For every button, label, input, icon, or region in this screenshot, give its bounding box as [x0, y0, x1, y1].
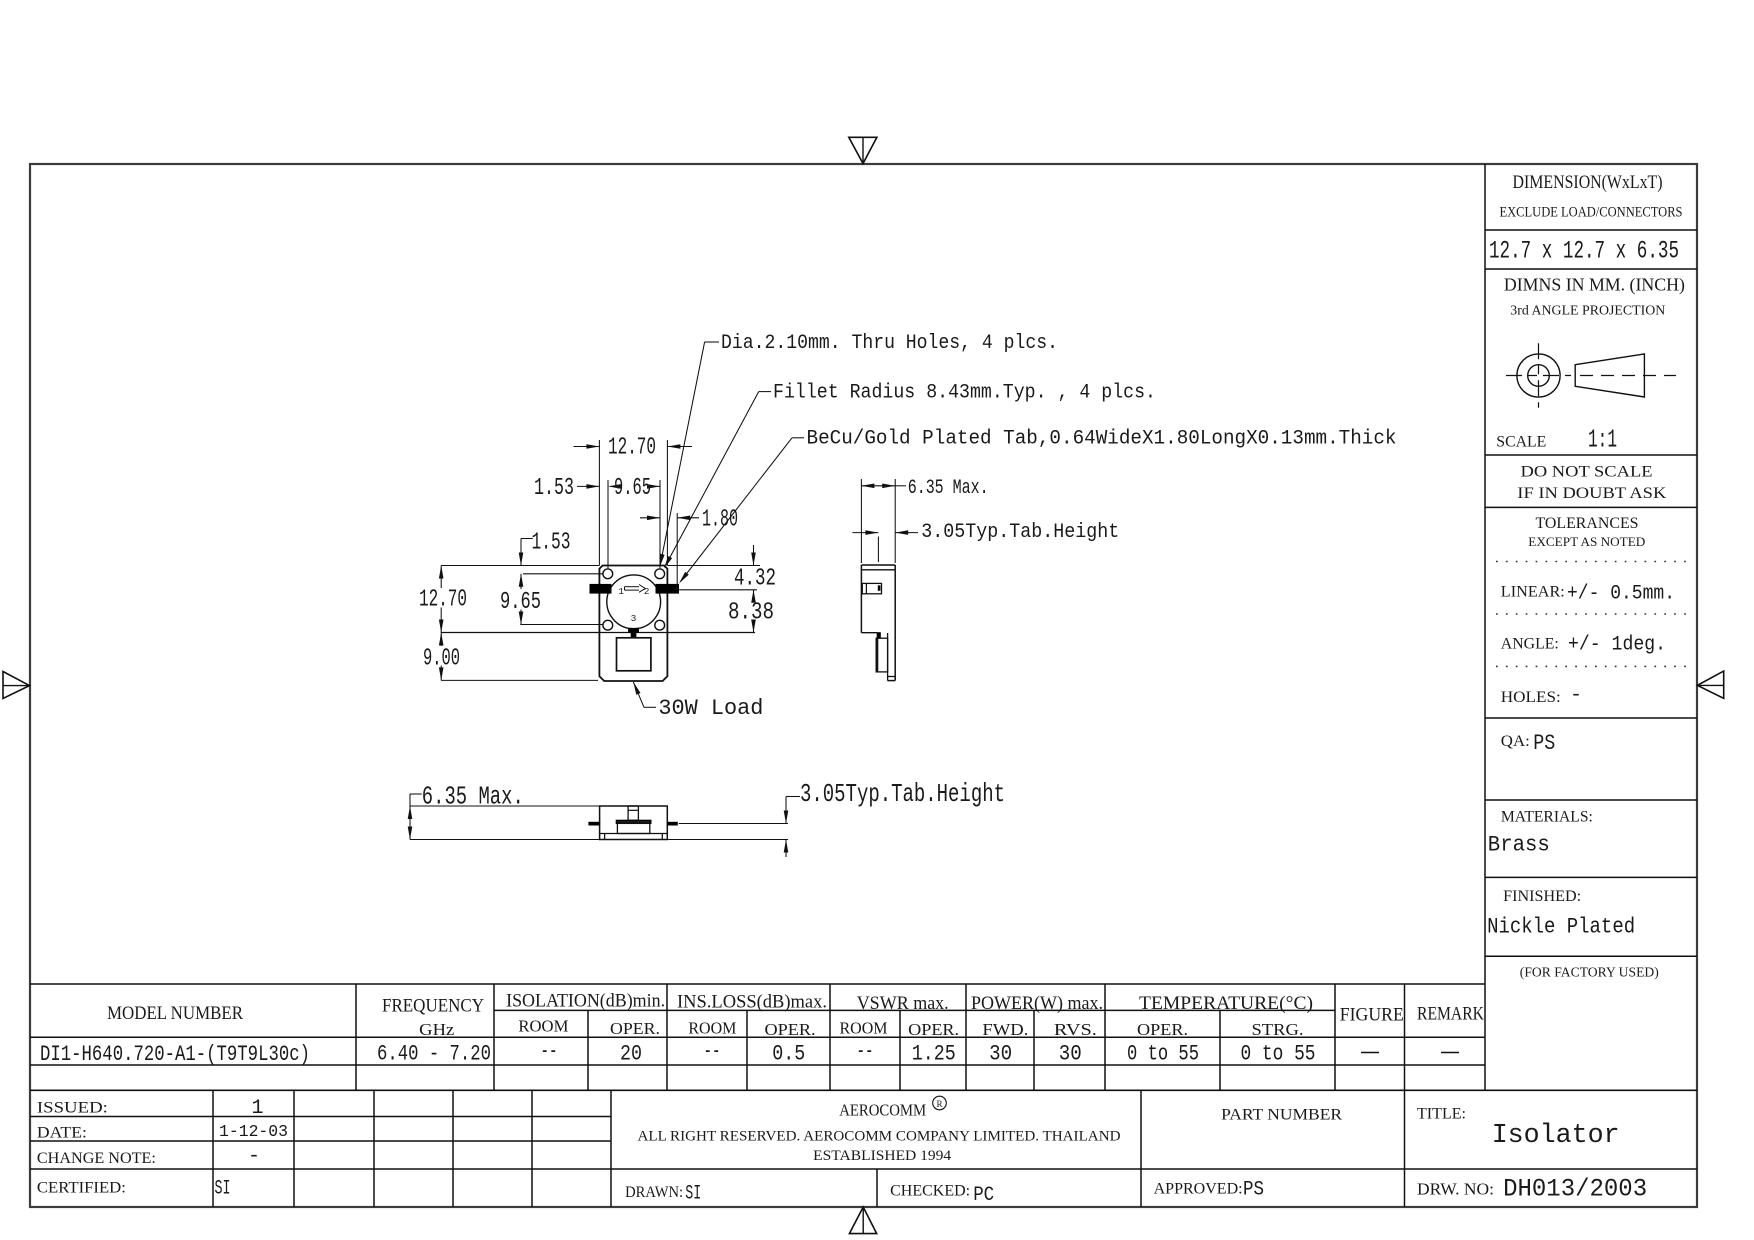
svg-text:GHz: GHz	[419, 1020, 454, 1039]
bottom view left tab	[589, 822, 600, 825]
bottom view connector block	[628, 806, 638, 820]
front view port 3 label	[631, 613, 637, 624]
bottom view tab plate	[616, 820, 651, 823]
scale label	[1496, 434, 1546, 451]
svg-text:ISOLATION(dB)min.: ISOLATION(dB)min.	[506, 991, 665, 1012]
load bottom extension line left	[441, 679, 598, 681]
issued label and value	[37, 1097, 264, 1120]
left registration mark	[3, 672, 30, 699]
info panel left border	[1484, 164, 1486, 1090]
temperature oper value	[1127, 1042, 1199, 1067]
front view port 1 to 2 arrow symbol	[625, 585, 646, 593]
bottom view top extension line left	[410, 805, 600, 807]
exclude load connectors text	[1500, 205, 1683, 221]
approved label and value	[1154, 1179, 1264, 1202]
svg-text:DH013/2003: DH013/2003	[1503, 1175, 1647, 1204]
spec table full-height column lines	[356, 984, 1405, 1090]
svg-text:PART NUMBER: PART NUMBER	[1221, 1107, 1342, 1124]
dimension 3.05 tab height bottom view	[784, 779, 1005, 857]
svg-text:CHECKED:: CHECKED:	[890, 1183, 970, 1200]
svg-text:FINISHED:: FINISHED:	[1503, 888, 1581, 905]
angle tolerance text	[1501, 634, 1666, 657]
svg-text:2: 2	[644, 586, 650, 597]
svg-text:R: R	[936, 1099, 942, 1109]
front view 30W load block	[617, 638, 651, 671]
svg-text:0 to 55: 0 to 55	[1241, 1042, 1316, 1067]
title label	[1417, 1106, 1466, 1123]
front view circulator circle	[607, 575, 661, 629]
svg-text:1: 1	[252, 1097, 264, 1120]
svg-text:SCALE: SCALE	[1496, 434, 1546, 451]
checked label and value	[890, 1183, 994, 1208]
svg-text:DRW. NO:: DRW. NO:	[1417, 1180, 1494, 1199]
insertion loss oper value	[772, 1042, 805, 1067]
bottom view load block	[617, 823, 649, 833]
spec table top border	[30, 983, 1485, 985]
linear tolerance text	[1501, 583, 1675, 606]
svg-text:1.53: 1.53	[532, 529, 571, 556]
dimension 9.00 vertical left	[423, 633, 460, 681]
power rvs value	[1059, 1042, 1082, 1067]
svg-text:Isolator: Isolator	[1492, 1121, 1620, 1151]
side view bottom foot	[888, 677, 896, 681]
side view tab cross-section	[862, 583, 881, 593]
date row line	[30, 1140, 611, 1142]
svg-text:ROOM: ROOM	[518, 1017, 568, 1036]
company rights text	[638, 1129, 1121, 1145]
svg-text:STRG.: STRG.	[1252, 1020, 1304, 1039]
info panel divider below do not scale	[1485, 506, 1697, 508]
bottom view bottom extension line	[410, 839, 788, 841]
overall size text	[1489, 237, 1679, 266]
svg-text:FWD.: FWD.	[982, 1020, 1028, 1039]
materials text	[1488, 809, 1593, 858]
side view load connector block	[877, 633, 880, 639]
svg-text:-: -	[1570, 684, 1582, 707]
svg-text:DATE:: DATE:	[37, 1125, 87, 1142]
svg-text:TITLE:: TITLE:	[1417, 1106, 1466, 1123]
svg-text:MODEL NUMBER: MODEL NUMBER	[107, 1003, 243, 1024]
note becu gold plated tab with leader	[677, 428, 1396, 585]
dimension 1.53 vertical left	[519, 529, 571, 565]
svg-text:ALL RIGHT RESERVED. AEROCOMM C: ALL RIGHT RESERVED. AEROCOMM COMPANY LIM…	[638, 1129, 1121, 1145]
svg-text:OPER.: OPER.	[610, 1019, 660, 1038]
except as noted text	[1528, 534, 1645, 549]
side view back wall line	[887, 633, 889, 677]
dotted separator middle	[1496, 613, 1689, 615]
info panel divider below finished	[1485, 955, 1697, 957]
frequency header	[382, 996, 484, 1040]
isolation oper value	[620, 1042, 642, 1067]
svg-text:Dia.2.10mm. Thru Holes, 4 plcs: Dia.2.10mm. Thru Holes, 4 plcs.	[721, 332, 1058, 355]
svg-text:EXCLUDE LOAD/CONNECTORS: EXCLUDE LOAD/CONNECTORS	[1500, 205, 1683, 221]
dotted separator upper	[1496, 561, 1689, 563]
svg-text:QA:: QA:	[1501, 733, 1530, 750]
svg-text:Nickle Plated: Nickle Plated	[1487, 915, 1635, 940]
part number heading	[1221, 1107, 1342, 1124]
svg-text:EXCEPT AS NOTED: EXCEPT AS NOTED	[1528, 534, 1645, 549]
svg-text:OPER.: OPER.	[1137, 1020, 1188, 1039]
svg-text:6.35 Max.: 6.35 Max.	[422, 781, 524, 811]
svg-text:INS.LOSS(dB)max.: INS.LOSS(dB)max.	[677, 992, 827, 1013]
company name aerocomm	[839, 1096, 946, 1119]
top registration mark	[849, 137, 877, 163]
frequency value	[377, 1042, 491, 1067]
svg-text:PS: PS	[1533, 731, 1555, 756]
dotted separator lower	[1496, 665, 1689, 667]
dimension 12.70 vertical left	[419, 566, 467, 633]
svg-text:12.7 x 12.7 x 6.35: 12.7 x 12.7 x 6.35	[1489, 237, 1679, 266]
svg-text:1:1: 1:1	[1588, 425, 1617, 455]
svg-text:PC: PC	[973, 1184, 994, 1207]
bottom view ledge line	[600, 833, 668, 835]
info panel divider below holes	[1485, 717, 1697, 719]
for factory used text	[1520, 966, 1659, 981]
svg-text:6.40 - 7.20: 6.40 - 7.20	[377, 1042, 491, 1067]
company part number divider	[1140, 1090, 1142, 1207]
tolerances heading	[1536, 515, 1639, 532]
svg-text:1-12-03: 1-12-03	[219, 1123, 288, 1142]
bottom view right tab	[667, 822, 677, 825]
info panel divider below qa	[1485, 799, 1697, 801]
vswr oper value	[912, 1042, 956, 1067]
spec table header bottom line	[30, 1036, 1485, 1038]
tab bottom extension line right	[679, 589, 758, 591]
svg-text:FREQUENCY: FREQUENCY	[382, 996, 484, 1017]
front view right BeCu tab	[656, 584, 679, 593]
svg-text:DIMNS IN MM. (INCH): DIMNS IN MM. (INCH)	[1504, 275, 1685, 296]
note thru holes with leader	[658, 332, 1058, 568]
finished text	[1487, 888, 1635, 940]
svg-text:RVS.: RVS.	[1054, 1020, 1097, 1039]
insertion loss room value	[704, 1039, 721, 1064]
dimension 1.80 tab length	[640, 507, 738, 591]
svg-text:ROOM: ROOM	[688, 1019, 736, 1038]
right registration mark	[1697, 671, 1723, 698]
bottom registration mark	[849, 1207, 876, 1234]
svg-text:8.38: 8.38	[728, 599, 774, 626]
svg-text:30W Load: 30W Load	[658, 696, 763, 721]
info panel divider below exclude note	[1485, 229, 1697, 231]
date label and value	[37, 1123, 288, 1142]
dimension 4.32 right	[734, 545, 776, 593]
svg-text:--: --	[541, 1039, 558, 1064]
title value isolator	[1492, 1121, 1620, 1151]
drawn label and value	[625, 1183, 701, 1206]
spec table header split line	[494, 1009, 1335, 1011]
svg-text:PS: PS	[1243, 1179, 1264, 1202]
temperature strg value	[1241, 1042, 1316, 1067]
bottom view foot ticks	[605, 834, 663, 840]
front view mounting hole top-left	[603, 569, 613, 579]
svg-text:DIMENSION(WxLxT): DIMENSION(WxLxT)	[1513, 172, 1663, 193]
projection symbol circles	[1506, 343, 1571, 408]
dimension 1.53 horizontal top	[534, 475, 599, 502]
svg-text:-: -	[248, 1145, 260, 1168]
vswr header	[840, 993, 960, 1039]
svg-text:+/- 1deg.: +/- 1deg.	[1568, 634, 1666, 657]
svg-text:(FOR FACTORY USED): (FOR FACTORY USED)	[1520, 966, 1659, 981]
svg-text:12.70: 12.70	[419, 587, 467, 614]
svg-text:30: 30	[989, 1042, 1012, 1067]
svg-text:DO NOT SCALE: DO NOT SCALE	[1521, 464, 1653, 481]
if in doubt ask text	[1517, 485, 1667, 502]
svg-text:SI: SI	[215, 1178, 231, 1201]
vswr room value	[857, 1039, 874, 1064]
model number header	[107, 1003, 243, 1024]
model number value	[40, 1042, 310, 1067]
hole centreline extension left lower	[520, 624, 602, 626]
svg-text:0 to 55: 0 to 55	[1127, 1042, 1199, 1067]
svg-text:CERTIFIED:: CERTIFIED:	[37, 1180, 126, 1197]
dimension 3.05 tab height side view	[852, 521, 1119, 562]
svg-text:3rd ANGLE PROJECTION: 3rd ANGLE PROJECTION	[1510, 304, 1665, 319]
svg-text:ISSUED:: ISSUED:	[37, 1100, 108, 1117]
svg-text:OPER.: OPER.	[908, 1020, 959, 1039]
svg-text:POWER(W) max.: POWER(W) max.	[971, 993, 1103, 1014]
note 30w load with leader	[631, 681, 763, 721]
figure header	[1340, 1005, 1404, 1026]
certified row top line	[30, 1168, 1697, 1170]
svg-text:3.05Typ.Tab.Height: 3.05Typ.Tab.Height	[921, 521, 1119, 544]
body top edge extension line left and right	[441, 565, 760, 567]
svg-text:APPROVED:: APPROVED:	[1154, 1181, 1243, 1198]
drawing number label and value	[1417, 1175, 1647, 1204]
company established text	[813, 1148, 952, 1164]
svg-text:6.35 Max.: 6.35 Max.	[908, 477, 989, 500]
svg-text:ANGLE:: ANGLE:	[1501, 636, 1559, 653]
svg-text:9.00: 9.00	[423, 645, 460, 672]
svg-text:--: --	[704, 1039, 721, 1064]
info panel divider below overall size	[1485, 268, 1697, 270]
dimension 9.65 vertical left	[500, 574, 541, 625]
side view body step	[861, 632, 877, 634]
svg-text:20: 20	[620, 1042, 642, 1067]
dimension heading text	[1513, 172, 1663, 193]
projection symbol cone	[1575, 354, 1676, 397]
dimension 9.65 horizontal top	[608, 475, 660, 569]
svg-text:LINEAR:: LINEAR:	[1501, 584, 1565, 601]
front view port 2 label	[644, 586, 650, 597]
svg-text:ESTABLISHED 1994: ESTABLISHED 1994	[813, 1148, 952, 1164]
svg-text:Brass: Brass	[1488, 833, 1550, 858]
side view load block	[876, 638, 887, 672]
svg-text:AEROCOMM: AEROCOMM	[839, 1101, 926, 1120]
front view mounting hole bottom-right	[655, 620, 665, 630]
svg-text:ROOM: ROOM	[840, 1019, 888, 1038]
dimension 6.35 max bottom view	[408, 781, 524, 839]
note fillet radius with leader	[662, 381, 1156, 569]
svg-text:BeCu/Gold Plated Tab,0.64WideX: BeCu/Gold Plated Tab,0.64WideX1.80LongX0…	[807, 428, 1397, 451]
front view left BeCu tab	[590, 584, 611, 593]
svg-text:12.70: 12.70	[608, 435, 656, 462]
svg-text:Fillet Radius 8.43mm.Typ. , 4: Fillet Radius 8.43mm.Typ. , 4 plcs.	[773, 381, 1156, 404]
remark header	[1417, 1004, 1484, 1025]
svg-text:SI: SI	[685, 1183, 701, 1206]
scale value 1:1	[1588, 425, 1617, 455]
svg-text:DRAWN:: DRAWN:	[625, 1184, 683, 1201]
figure value	[1361, 1052, 1379, 1054]
svg-text:3: 3	[631, 613, 637, 624]
svg-text:30: 30	[1059, 1042, 1082, 1067]
isolation header	[506, 991, 665, 1039]
dimns in mm text	[1504, 275, 1685, 296]
3rd angle projection text	[1510, 304, 1665, 319]
svg-text:IF IN DOUBT ASK: IF IN DOUBT ASK	[1517, 485, 1667, 502]
hole centreline extension left upper	[523, 573, 603, 575]
info panel divider below materials	[1485, 876, 1697, 878]
info panel divider below scale	[1485, 454, 1697, 456]
power header	[971, 993, 1103, 1039]
isolation room value	[541, 1039, 558, 1064]
bottom view body outline	[600, 806, 668, 840]
svg-text:DI1-H640.720-A1-(T9T9L30c): DI1-H640.720-A1-(T9T9L30c)	[40, 1042, 310, 1067]
insertion loss header	[677, 992, 827, 1040]
spec table bottom border	[30, 1089, 1697, 1091]
svg-text:FIGURE: FIGURE	[1340, 1005, 1404, 1026]
dimension 12.70 horizontal top	[574, 435, 693, 566]
spec table sub column lines	[588, 1010, 1220, 1090]
certified label and value	[37, 1178, 231, 1201]
front view port 1 label	[618, 586, 624, 597]
drawing frame border	[30, 164, 1697, 1207]
svg-text:1.80: 1.80	[702, 507, 738, 534]
front view mounting hole top-right	[655, 569, 665, 579]
change note label and value	[37, 1145, 260, 1168]
svg-text:OPER.: OPER.	[765, 1020, 816, 1039]
svg-text:1: 1	[618, 586, 624, 597]
qa text	[1501, 731, 1556, 756]
svg-text:TOLERANCES: TOLERANCES	[1536, 515, 1639, 532]
front view square-part bottom edge with extension lines	[441, 632, 755, 634]
part number title divider	[1404, 1090, 1406, 1207]
front view load pedestal	[629, 628, 639, 638]
svg-text:REMARK: REMARK	[1417, 1004, 1484, 1025]
spec table data row bottom line	[30, 1064, 1485, 1066]
front view body outline	[599, 566, 667, 682]
svg-text:1.25: 1.25	[912, 1042, 956, 1067]
dimension 8.38 right	[728, 590, 774, 633]
svg-text:MATERIALS:: MATERIALS:	[1501, 809, 1593, 826]
svg-text:TEMPERATURE(°C): TEMPERATURE(°C)	[1139, 993, 1313, 1014]
svg-text:VSWR max.: VSWR max.	[857, 993, 949, 1014]
svg-text:HOLES:: HOLES:	[1501, 689, 1561, 706]
svg-text:9.65: 9.65	[614, 475, 651, 502]
side view outline	[861, 565, 895, 681]
title block column lines left	[213, 1090, 611, 1207]
holes tolerance text	[1501, 684, 1582, 707]
svg-text:0.5: 0.5	[772, 1042, 805, 1067]
remark value	[1441, 1052, 1459, 1054]
svg-text:+/- 0.5mm.: +/- 0.5mm.	[1567, 583, 1675, 606]
dimension 6.35 max side view	[861, 477, 988, 563]
temperature header	[1137, 993, 1313, 1039]
do not scale text	[1521, 464, 1653, 481]
front view mounting hole bottom-left	[603, 620, 613, 630]
svg-text:CHANGE NOTE:: CHANGE NOTE:	[37, 1150, 156, 1167]
drawn checked divider	[876, 1169, 878, 1207]
issued row line	[30, 1116, 611, 1118]
bottom view tab extension line right	[679, 823, 788, 825]
svg-text:9.65: 9.65	[500, 589, 541, 616]
svg-text:--: --	[857, 1039, 874, 1064]
power fwd value	[989, 1042, 1012, 1067]
svg-text:4.32: 4.32	[734, 566, 776, 593]
svg-text:3.05Typ.Tab.Height: 3.05Typ.Tab.Height	[800, 779, 1005, 809]
svg-text:1.53: 1.53	[534, 475, 574, 502]
